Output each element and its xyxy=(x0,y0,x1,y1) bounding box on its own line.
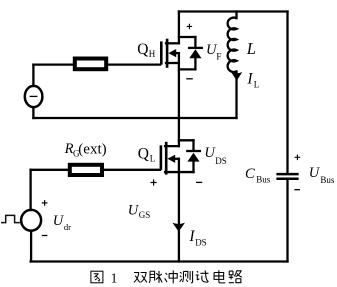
svg-text:C: C xyxy=(245,166,255,182)
svg-text:1: 1 xyxy=(111,270,118,285)
svg-text:dr: dr xyxy=(64,222,71,232)
svg-text:DS: DS xyxy=(215,156,227,166)
svg-text:Q: Q xyxy=(138,145,149,162)
svg-text:DS: DS xyxy=(195,237,207,247)
svg-text:Bus: Bus xyxy=(256,174,271,184)
svg-text:L: L xyxy=(254,79,259,89)
svg-text:(ext): (ext) xyxy=(78,141,106,157)
svg-text:F: F xyxy=(216,51,221,61)
svg-text:Bus: Bus xyxy=(320,175,335,185)
svg-text:U: U xyxy=(309,165,321,181)
svg-text:L: L xyxy=(150,153,156,163)
svg-text:I: I xyxy=(246,70,253,87)
svg-text:Q: Q xyxy=(137,41,148,58)
svg-text:H: H xyxy=(149,49,156,59)
svg-text:L: L xyxy=(246,39,256,58)
svg-text:GS: GS xyxy=(139,210,151,220)
